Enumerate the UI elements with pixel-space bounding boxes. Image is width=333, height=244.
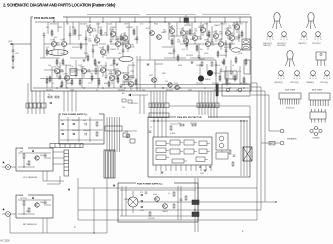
transistor Q06 [104, 28, 116, 40]
transistor Q11 [180, 27, 190, 39]
resistor R101 [51, 29, 53, 37]
wire B4 h1 [120, 189, 196, 191]
resistor RC2b [28, 208, 30, 212]
wire vertical 39 [51, 66, 53, 88]
resistor R103 [56, 58, 58, 66]
svg-text:2SC2705(Y): 2SC2705(Y) [312, 43, 321, 45]
pinout circle P4 [316, 32, 321, 37]
svg-text:R280: R280 [68, 83, 72, 85]
svg-text:2. SCHEMATIC DIAGRAM AND PARTS: 2. SCHEMATIC DIAGRAM AND PARTS LOCATION … [3, 3, 116, 8]
svg-text:C608: C608 [161, 32, 165, 34]
svg-text:LF1 VERSION: LF1 VERSION [23, 177, 38, 179]
resistor R118 [208, 30, 210, 38]
svg-text:D699: D699 [64, 74, 68, 76]
wire vertical 33 [191, 22, 193, 36]
wire stub right [265, 201, 276, 203]
svg-text:1k: 1k [52, 83, 54, 85]
wire PC00-1 out a [53, 151, 64, 153]
svg-text:R733: R733 [146, 28, 150, 30]
relay RY801 contact a [219, 136, 224, 141]
marker triangle board 2 [32, 197, 34, 199]
wire bottom bus 1 [78, 187, 257, 189]
board outline P540 POWER SUPPLY [118, 181, 198, 222]
connector blob CN542 [192, 212, 199, 217]
IC801 internal block 9 [156, 155, 169, 160]
svg-text:D160: D160 [122, 33, 126, 35]
wire vertical 20 [230, 60, 232, 70]
diode D901 [61, 120, 64, 125]
svg-text:B: B [286, 39, 287, 41]
svg-text:RF VERSION: RF VERSION [23, 224, 37, 226]
transistor package drawing TR1 [274, 13, 280, 21]
junction dot top 5 [119, 21, 120, 22]
resistor R123 [241, 30, 243, 38]
svg-text:2SA1015: 2SA1015 [168, 52, 175, 55]
svg-text:P540 POWER SUPPLY(-): P540 POWER SUPPLY(-) [137, 183, 163, 186]
svg-text:2240: 2240 [194, 31, 198, 33]
wire vertical 18 [132, 62, 134, 74]
svg-text:2SA1015: 2SA1015 [124, 198, 131, 201]
board outline PC00 #1 [16, 146, 53, 171]
wire vertical 5 [110, 26, 112, 38]
svg-text:L: L [252, 47, 253, 49]
transistor Q18 [219, 27, 231, 39]
svg-text:R660: R660 [229, 33, 233, 35]
wire vertical 42 [97, 66, 99, 88]
resistor R131 [108, 80, 110, 88]
svg-text:2SC2240: 2SC2240 [196, 65, 203, 67]
svg-text:R328: R328 [125, 41, 129, 43]
svg-text:1k: 1k [236, 90, 238, 92]
transistor Q36 [109, 69, 121, 80]
bridge rectifier D541 [128, 191, 138, 213]
svg-text:2SC1815: 2SC1815 [236, 24, 243, 26]
PC00 labels 1 [20, 151, 47, 166]
svg-text:E: E [278, 78, 279, 80]
capacitor C104 [92, 48, 95, 54]
wire vertical 17 [105, 62, 107, 74]
resistor R127 [71, 78, 73, 86]
wire vertical 19 [215, 62, 217, 76]
IC801 internal block 4 [199, 141, 210, 146]
resistor R120 [223, 58, 225, 66]
junction dot bottom 1 [56, 87, 57, 88]
svg-text:10k: 10k [125, 131, 128, 133]
svg-text:33k: 33k [54, 37, 57, 39]
wire left riser 3 [93, 188, 95, 233]
resistor R106 [80, 42, 82, 50]
svg-text:1u: 1u [232, 65, 234, 67]
svg-text:2SA1015: 2SA1015 [83, 129, 90, 132]
wire jack2 drop [9, 214, 11, 233]
svg-text:100k: 100k [188, 90, 192, 92]
svg-text:2SC1815: 2SC1815 [20, 198, 27, 200]
resistor R104 [62, 58, 64, 66]
wire P900 h3 [60, 139, 103, 141]
wire PC00-1 out b [53, 157, 64, 159]
svg-text:Q758: Q758 [238, 53, 242, 55]
connector blob CN541 [192, 200, 199, 205]
protector bottom parts [199, 162, 234, 175]
connector ladder CN4 [64, 150, 69, 176]
wire vertical 45 [136, 56, 138, 91]
svg-text:P700 MAIN AMP: P700 MAIN AMP [34, 16, 55, 20]
board outline P800 SPK PROTECTOR [148, 115, 250, 177]
transistor Q541 [153, 194, 159, 201]
capacitor C113 [238, 34, 241, 40]
protector vertical wires [241, 120, 247, 176]
transistor Q15 [205, 38, 215, 50]
junction dot bottom 5 [124, 87, 125, 88]
connector bundle CN2 (mid) [149, 91, 169, 118]
svg-text:56k: 56k [90, 73, 93, 75]
electrolytic capacitor C750 [184, 15, 189, 23]
svg-text:47u: 47u [238, 71, 241, 73]
wire bottom bus 4 [78, 219, 257, 221]
junction dot top 9 [179, 21, 180, 22]
wire output 3 [251, 91, 265, 202]
svg-text:100: 100 [206, 35, 209, 37]
resistor row under board [48, 94, 59, 104]
resistor RC1b [28, 161, 30, 165]
pinout circle P8 [325, 71, 330, 76]
svg-text:470: 470 [140, 192, 143, 194]
svg-text:1u: 1u [61, 120, 63, 122]
svg-text:2SC2240: 2SC2240 [120, 39, 127, 41]
junction dots B4 [194, 201, 198, 216]
transistor Q02 [55, 38, 67, 50]
wire vertical 44 [127, 66, 129, 84]
junction dot bottom 2 [66, 87, 67, 88]
resistor R108 [94, 58, 96, 66]
IC801 internal block 6 [170, 149, 183, 154]
wire feeder F2 [66, 17, 68, 22]
svg-text:10k: 10k [168, 24, 171, 26]
svg-text:2SC2240: 2SC2240 [190, 123, 197, 125]
wire V- rail [33, 87, 249, 89]
resistor R902 [96, 132, 98, 136]
capacitor C103 [85, 36, 88, 42]
transistor Q07 [115, 38, 125, 50]
IC801 pins [156, 165, 211, 171]
capacitor C901 [83, 120, 86, 125]
svg-text:R969: R969 [190, 39, 194, 41]
resistor R135 [226, 78, 228, 86]
svg-text:2SC3423: 2SC3423 [80, 24, 87, 26]
marker triangle jack 1 [2, 161, 4, 163]
wire interconnect 16 [59, 70, 64, 72]
wire feeder F12 [224, 17, 226, 22]
svg-text:2240: 2240 [177, 42, 181, 44]
wire V+ rail [35, 21, 248, 23]
resistor R121 [229, 42, 231, 50]
svg-text:100k: 100k [94, 65, 98, 67]
resistor R542 [173, 204, 175, 208]
wire interconnect 12 [106, 57, 119, 59]
marker triangle board 1 [32, 150, 34, 152]
svg-text:10k: 10k [74, 71, 77, 73]
svg-text:D511: D511 [110, 65, 114, 67]
svg-text:1k: 1k [96, 90, 98, 92]
relay RY801 contact b [219, 143, 224, 148]
svg-text:2SC2240: 2SC2240 [196, 83, 203, 85]
wire vertical 38 [245, 22, 247, 40]
svg-text:C925: C925 [130, 71, 134, 73]
resistor R134 [219, 74, 221, 82]
ground symbol G8 [119, 85, 122, 87]
transistor QC1 [35, 156, 39, 160]
svg-text:B: B [283, 78, 284, 80]
component cluster right of P900 [122, 131, 137, 143]
wire long run y78 [40, 78, 100, 80]
svg-text:Q751: Q751 [114, 71, 118, 73]
svg-text:D574: D574 [200, 173, 204, 175]
ground symbol G6 [221, 61, 224, 63]
resistor R132 [117, 76, 119, 84]
transistor Q17 [218, 38, 228, 50]
wire feeder F4 [102, 17, 104, 22]
svg-text:2SA1015: 2SA1015 [40, 201, 47, 204]
resistor R130 [98, 78, 100, 86]
svg-text:10k: 10k [20, 151, 23, 153]
wire vertical 48 [239, 66, 241, 84]
junction dot top 8 [164, 21, 165, 22]
svg-text:2SC2240: 2SC2240 [214, 73, 221, 75]
svg-text:2240: 2240 [93, 31, 97, 33]
svg-text:E: E [301, 39, 302, 41]
svg-text:0.022: 0.022 [96, 24, 100, 26]
svg-text:2SC2240: 2SC2240 [166, 90, 173, 92]
resistor R115 [177, 54, 179, 62]
resistor R128 [79, 78, 81, 86]
svg-text:D150: D150 [180, 28, 184, 30]
svg-text:SIDE VIEW: SIDE VIEW [312, 90, 322, 92]
B4 extra parts [124, 192, 170, 220]
svg-text:2SC1815: 2SC1815 [72, 47, 79, 49]
wire vertical 24 [72, 22, 74, 36]
IC801 internal block 10 [172, 159, 187, 163]
junction dot bottom 3 [83, 87, 84, 88]
IC801 pin labels [155, 173, 208, 175]
svg-text:PC00: PC00 [18, 195, 24, 197]
svg-text:2SC3423: 2SC3423 [148, 218, 155, 220]
capacitor CC2 [44, 201, 47, 203]
resistor R110 [107, 44, 109, 52]
svg-text:C774: C774 [88, 83, 92, 85]
svg-text:470: 470 [46, 47, 49, 49]
svg-text:2SC2240(F): 2SC2240(F) [277, 45, 286, 47]
svg-text:2240: 2240 [55, 45, 59, 47]
svg-text:STK4152II: STK4152II [286, 108, 295, 110]
wire vertical 23 [63, 22, 65, 40]
transistor package drawing TR2 [308, 13, 314, 21]
svg-text:2SC1815: 2SC1815 [131, 103, 138, 105]
svg-text:HC 2000: HC 2000 [1, 241, 11, 243]
ground symbol G5 [190, 61, 193, 63]
svg-text:2SA970: 2SA970 [162, 210, 168, 213]
wire interconnect 21 [128, 76, 131, 78]
pinout circle P3 [302, 32, 307, 37]
svg-text:0.022: 0.022 [15, 53, 19, 55]
wire interconnect 1 [44, 43, 52, 45]
transistor Q08 [116, 32, 128, 44]
svg-text:2SA970: 2SA970 [205, 78, 211, 81]
power transistor Q42 (dark) [207, 70, 220, 75]
svg-text:100: 100 [172, 35, 175, 37]
svg-text:2SC1815: 2SC1815 [186, 55, 193, 57]
wire vertical 25 [78, 22, 80, 40]
wire interconnect 20 [120, 72, 124, 74]
wire interconnect 11 [70, 57, 86, 59]
svg-text:B: B [324, 78, 325, 80]
junction dot bottom 6 [136, 87, 137, 88]
svg-text:100: 100 [228, 39, 231, 41]
transistor Q542 [162, 204, 168, 213]
input coupling network [8, 41, 31, 69]
svg-text:56k: 56k [61, 130, 64, 132]
svg-text:E: E [294, 78, 295, 80]
svg-text:D252: D252 [100, 35, 104, 37]
svg-text:470: 470 [104, 55, 107, 57]
wire vertical 29 [128, 22, 130, 44]
svg-text:10k: 10k [86, 27, 89, 29]
resistor R133 [135, 78, 137, 86]
wire feeder F13 [239, 17, 241, 22]
transistor Q52 [157, 32, 165, 39]
wire interconnect 9 [223, 43, 235, 45]
svg-text:470: 470 [128, 47, 131, 49]
transistor Q10 [163, 25, 175, 37]
svg-text:2SA1015: 2SA1015 [220, 23, 227, 26]
svg-text:2SB1109(Q): 2SB1109(Q) [274, 82, 283, 84]
pin header row under P900 [50, 144, 83, 148]
svg-text:Q673: Q673 [213, 31, 217, 33]
pinout circle P5 [279, 71, 284, 76]
wire output stage v1 [199, 64, 201, 78]
diode D543 [141, 200, 143, 202]
svg-text:2SC1815: 2SC1815 [50, 24, 57, 26]
svg-text:4.7k: 4.7k [140, 24, 143, 26]
junction dot bottom 10 [229, 87, 230, 88]
wire interconnect 22 [110, 21, 190, 23]
svg-text:0.022: 0.022 [98, 27, 102, 29]
under-board parts [122, 99, 138, 109]
svg-text:R684: R684 [205, 39, 209, 41]
wire vertical 27 [106, 22, 108, 36]
wire lower rail [120, 84, 249, 86]
wire speaker - [265, 131, 279, 143]
resistor R543 [185, 196, 187, 200]
svg-text:2240: 2240 [131, 47, 135, 49]
capacitor C119 [220, 68, 223, 74]
svg-text:SPEAKER: SPEAKER [287, 138, 297, 141]
svg-text:2240: 2240 [235, 39, 239, 41]
svg-text:2SC2240: 2SC2240 [100, 66, 107, 68]
svg-text:R605: R605 [224, 47, 228, 49]
junction dot bottom 8 [179, 87, 180, 88]
svg-text:47u: 47u [170, 27, 173, 29]
wire protector top bus [150, 120, 248, 122]
wire drop right [249, 106, 251, 117]
driver transistor Q43 [168, 83, 172, 87]
bias resistor R302 [211, 62, 213, 66]
svg-text:Q630: Q630 [56, 73, 60, 75]
wire left riser 1 [77, 178, 79, 220]
capacitor C117 [105, 74, 108, 80]
diode D904 [72, 130, 79, 135]
junction dot top 13 [239, 21, 240, 22]
svg-text:C529: C529 [174, 83, 178, 85]
svg-text:0.022: 0.022 [78, 65, 82, 67]
PC00 labels 2 [20, 198, 47, 213]
wire vertical 6 [122, 36, 124, 58]
svg-text:10k: 10k [48, 65, 51, 67]
protector small parts [229, 120, 245, 156]
svg-text:1k: 1k [48, 94, 50, 96]
protector input parts [149, 120, 172, 132]
wire output 2 [251, 87, 261, 210]
svg-text:2SA1015: 2SA1015 [64, 64, 71, 67]
wire speaker tap [261, 142, 265, 144]
wire vertical 1 [43, 36, 45, 58]
transistor Q09 [125, 40, 135, 52]
junction dot bottom 11 [243, 87, 244, 88]
wire interconnect 19 [105, 69, 116, 71]
resistor R122 [235, 56, 237, 64]
thermal breaker box [70, 66, 77, 76]
wire vertical 15 [75, 60, 77, 72]
resistor R114 [171, 38, 173, 46]
transistor Q12 [177, 35, 189, 47]
wire interconnect 23 [155, 63, 163, 65]
transistor Q35 [109, 74, 119, 85]
pinout circle P6 [295, 71, 300, 76]
IC801 internal block 8 [199, 149, 210, 154]
capacitor CC1 [44, 154, 47, 156]
wire AC drop [132, 95, 148, 114]
transistor QC2 [35, 203, 39, 207]
transistor Q51 [146, 28, 154, 35]
pinout circle P7 [311, 71, 316, 76]
relay RY701 [242, 39, 250, 74]
resistor R113 [133, 28, 135, 36]
capacitor C106 [122, 48, 125, 54]
capacitor C111 [211, 38, 214, 44]
dark bar at edge [216, 84, 218, 96]
transistor Q37 [123, 72, 133, 84]
junction dot top 6 [134, 21, 135, 22]
IC801 internal block 7 [184, 149, 197, 154]
dual transistor pair Q25/Q26 (pill) [232, 48, 241, 52]
input jack J2 [2, 212, 10, 217]
resistor R107 [87, 54, 89, 62]
svg-text:970F: 970F [109, 74, 113, 76]
board outline PC00 #2 [16, 193, 53, 218]
wire interconnect 7 [180, 43, 206, 45]
transistor Q38 [122, 80, 134, 91]
svg-text:970F: 970F [122, 85, 126, 87]
input jack J1 [2, 165, 10, 170]
transistor Q33 [81, 67, 91, 78]
transistor Q34 [94, 66, 107, 77]
svg-text:2SC3423: 2SC3423 [40, 155, 47, 157]
marker triangle bottom [68, 188, 70, 190]
wire interconnect 14 [190, 57, 214, 59]
relay RY801 part [216, 150, 228, 159]
wire feeder F8 [164, 17, 166, 22]
svg-text:C205: C205 [218, 39, 222, 41]
wire interconnect 24 [170, 35, 181, 37]
